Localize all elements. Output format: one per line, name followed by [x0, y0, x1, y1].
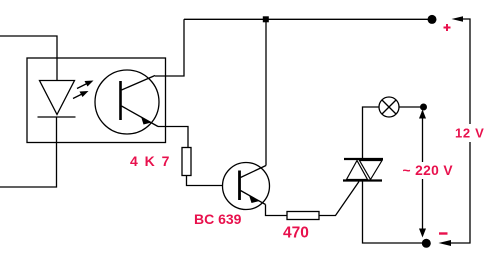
triac T1 — [343, 159, 383, 181]
annotation arrow 12V bottom — [439, 142, 471, 246]
label 4 K 7 — [130, 153, 171, 169]
terminal - — [422, 239, 431, 248]
LED D1 (optocoupler emitter) — [38, 81, 76, 118]
svg-text:12 V: 12 V — [455, 126, 485, 141]
svg-text:BC 639: BC 639 — [194, 211, 242, 227]
label 470 — [283, 225, 309, 242]
annotation arrow 220V — [419, 110, 426, 238]
wire phototransistor emitter to resistor — [158, 127, 188, 148]
lamp L1 — [379, 97, 399, 117]
svg-text:4 K 7: 4 K 7 — [130, 153, 171, 169]
wire triac MT2 to lamp — [363, 107, 380, 158]
phototransistor Q1 — [95, 70, 159, 134]
node A junction dot — [420, 104, 427, 111]
resistor R1 4K7 — [182, 148, 191, 176]
svg-text:470: 470 — [283, 225, 309, 242]
label 12 V — [455, 126, 485, 141]
svg-text:~ 220 V: ~ 220 V — [403, 163, 454, 178]
wire resistor to BC639 base — [187, 176, 224, 186]
label - — [439, 232, 448, 234]
light arrows — [73, 81, 94, 99]
optocoupler box — [27, 58, 166, 143]
wire top rail — [184, 18, 429, 20]
label ~ 220 V — [403, 163, 454, 178]
wire BC639 collector to junction — [265, 19, 267, 165]
wire bottom-left input — [0, 117, 57, 187]
label BC 639 — [194, 211, 242, 227]
wire triac MT1 to bottom rail — [363, 182, 423, 244]
wire BC639 emitter to resistor 470 — [266, 205, 288, 216]
annotation arrow 12V top — [452, 16, 471, 124]
transistor Q2 BC639 — [223, 163, 270, 210]
wire top-left input — [0, 36, 57, 81]
label + — [444, 24, 451, 31]
resistor R2 470 — [287, 212, 319, 220]
wire lamp to node A — [399, 106, 421, 108]
wire phototransistor collector to top rail — [155, 19, 184, 76]
junction on top rail — [263, 16, 269, 22]
terminal + — [428, 15, 437, 24]
wire resistor 470 to triac gate — [319, 182, 359, 216]
